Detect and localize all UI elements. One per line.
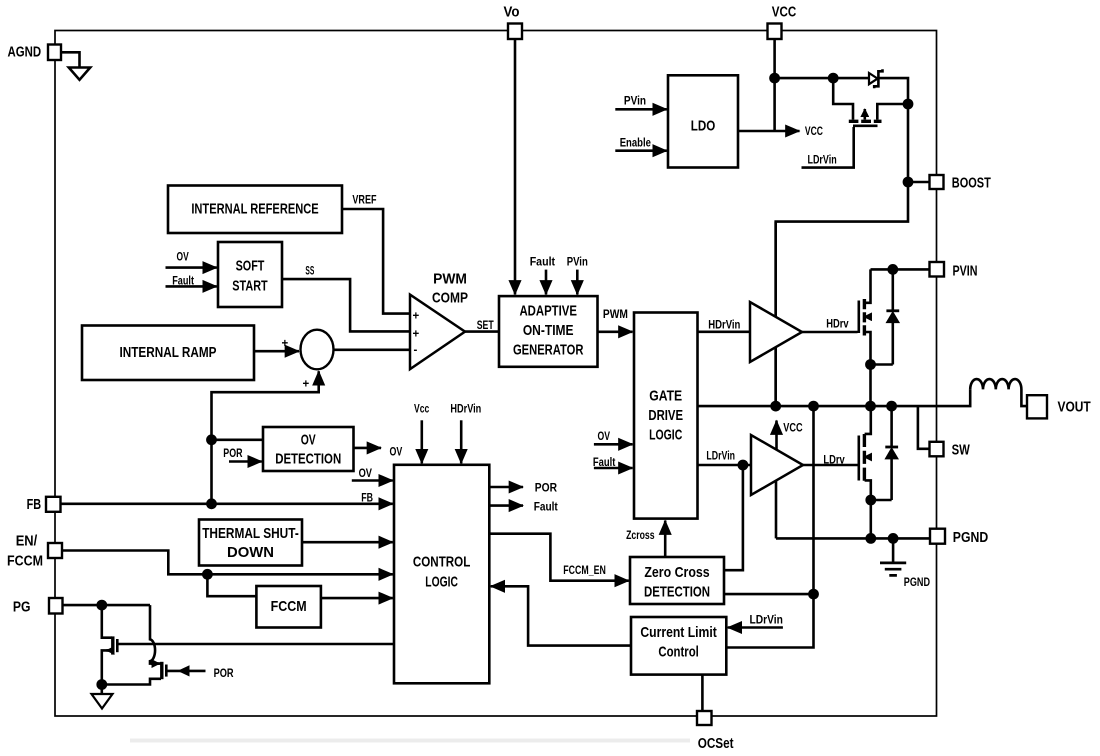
svg-text:DRIVE: DRIVE [648,407,683,424]
wire SS to comparator middle input [282,279,409,331]
transistor M1 gate bar [116,639,119,652]
junction SW rail at body diode [886,401,897,412]
junction SW rail at zcd column [808,401,819,412]
wire PVin arrow into AOT top [576,270,579,295]
block INTERNAL RAMP [82,326,254,381]
wire Enable arrow into LDO [615,149,667,152]
junction VCC rail at bootstrap fet [828,73,839,84]
pin VCC [768,24,782,40]
transistor M1 channel [111,636,114,654]
wire PWM from AOT to gate drive logic [598,330,633,333]
wire M1 source to ground [102,650,112,684]
wire PGND rail [776,537,930,540]
svg-text:GATE: GATE [649,388,682,405]
block FCCM [256,586,321,628]
svg-text:LOGIC: LOGIC [425,574,458,591]
wire current limit control to OCSet pin [701,675,704,711]
wire Vo to adaptive on-time generator [514,39,517,295]
svg-text:Enable: Enable [620,138,651,150]
diode D3 low side body diode [890,406,893,446]
svg-text:OV: OV [390,447,403,459]
svg-text:FB: FB [27,497,41,513]
svg-text:+: + [413,311,420,323]
pin BOOST [930,175,944,189]
wire PVin arrow into LDO [615,108,667,111]
diode D1 bootstrap schottky [869,73,878,84]
svg-text:Vo: Vo [504,5,520,21]
junction VCC rail at pin column [769,73,780,84]
pin EN/FCCM [48,543,62,558]
junction boost column at BOOST pin [903,177,914,188]
transistor M2 body arrow [151,662,160,665]
svg-text:VREF: VREF [352,195,376,207]
svg-text:EN/: EN/ [16,533,38,549]
wire VCC pin down to LDO output [773,39,776,131]
junction EN line at FCCM branch [202,569,213,580]
wire BOOST supply through high side driver to SW rail (hidden behind triangle) [774,222,777,407]
svg-text:OV: OV [301,432,316,449]
wire HDrv driver output to high side fet gate [802,331,858,334]
svg-text:LDrVin: LDrVin [750,614,783,626]
svg-text:PG: PG [13,600,31,616]
wire Q3 gate to LDrVin [802,127,854,168]
svg-text:FCCM: FCCM [7,554,43,570]
ground PG circuit [92,694,113,709]
junction zcd column [808,589,819,600]
svg-text:Fault: Fault [534,502,558,514]
svg-text:SOFT: SOFT [236,258,265,275]
pin PVIN [930,262,945,277]
svg-text:COMP: COMP [432,290,468,307]
wire Fault arrow into AOT top [545,270,548,295]
transistor Q2 body arrow [864,456,871,459]
block CONTROL LOGIC [394,465,489,684]
junction SW rail at boost column [770,401,781,412]
svg-text:HDrv: HDrv [826,319,849,331]
wire Q1 drain to PVIN line [865,269,871,302]
diode D2 high side body diode [891,269,894,309]
svg-text:SS: SS [305,266,314,278]
svg-text:ADAPTIVE: ADAPTIVE [519,302,577,319]
wire LDO output VCC arrow [738,130,800,133]
wire to PGND ground symbol [892,538,895,562]
svg-text:LDrVin: LDrVin [808,155,837,167]
svg-text:GENERATOR: GENERATOR [513,342,584,359]
svg-text:CONTROL: CONTROL [413,554,470,571]
IC boundary box [55,31,937,717]
transistor Q3 body arrow [863,109,866,120]
arrowhead POR into M2 gate [178,665,190,676]
svg-text:AGND: AGND [8,45,42,61]
wire Q2 source to PGND rail [869,500,872,538]
op-amp PWM COMP [410,295,465,370]
wire EN branch to FCCM block [207,574,256,596]
junction PGND rail at ground symbol [888,533,899,544]
svg-text:SET: SET [477,320,494,332]
transistor Q1 body arrow [864,315,871,318]
transistor Q2 low side fet gate bar [857,436,860,481]
wire thermal shutdown output to control logic [302,541,393,544]
svg-text:PGND: PGND [904,577,930,589]
wire AGND to ground [61,52,80,67]
transistor Q1 high side fet gate bar [857,301,860,334]
svg-text:DETECTION: DETECTION [644,584,710,601]
svg-text:+: + [303,379,310,391]
wire POR output arrow [489,486,523,489]
svg-text:POR: POR [214,668,235,680]
pin Vo [508,24,522,40]
wire SW rail from gate drive logic to inductor [698,389,971,406]
svg-text:START: START [232,277,267,294]
svg-text:THERMAL SHUT-: THERMAL SHUT- [202,525,299,542]
transistor Q3 bootstrap switch channel [849,120,882,123]
wire bootstrap fet left terminal [833,78,853,120]
wire LDrv driver output to low side fet gate [803,464,858,467]
summing junction circle [301,330,334,370]
wire FB column to OV detection [212,438,264,441]
wire HDrVin to high side driver [698,330,751,333]
junction FB line at column [206,498,217,509]
junction PVIN line and body diode [887,264,898,275]
junction FB column at OV detection branch [206,434,217,445]
block INTERNAL REFERENCE [168,186,342,234]
svg-text:VCC: VCC [805,126,823,138]
svg-text:Vcc: Vcc [414,404,430,416]
svg-text:-: - [414,345,418,357]
buffer U3 low side driver LDrv [751,435,803,495]
svg-text:OCSet: OCSet [698,736,734,752]
ground PGND [880,563,906,576]
wire LDrVin to low side driver [698,464,752,467]
node VOUT terminal square [1027,395,1047,418]
svg-text:PWM: PWM [603,309,628,321]
svg-text:FCCM: FCCM [271,598,307,615]
svg-text:FCCM_EN: FCCM_EN [563,565,606,577]
block SOFT START [218,242,282,307]
wire SET comparator to AOT [465,330,499,333]
transistor M2 gate bar [165,665,168,677]
svg-text:DOWN: DOWN [227,544,274,561]
wire Zcross arrow from zero cross detection to gate drive logic [664,521,667,557]
buffer U2 high side driver HDrv [750,302,802,362]
svg-text:HDrVin: HDrVin [708,320,740,332]
svg-text:OV: OV [177,252,189,264]
pin OCSet [697,711,712,725]
junction PGND rail at Q2 source [865,533,876,544]
block Current Limit Control [631,617,726,675]
wire BOOST stub [908,181,930,184]
pin PG [49,598,63,614]
wire M2 source to ground rail [102,679,161,685]
wire Fault output arrow [489,504,523,507]
wire OV arrow into gate drive logic [594,443,633,446]
svg-text:Current Limit: Current Limit [640,624,716,641]
svg-text:Control: Control [658,644,698,661]
wire OV detection output arrow [354,447,382,450]
wire Fault arrow into soft start [166,285,217,288]
block Zero Cross DETECTION [630,557,724,604]
faint ghost mark bottom [130,739,690,743]
wire HDrVin arrow into control logic top [460,420,463,463]
pin PGND [930,529,945,544]
wire VCC rail to bootstrap diode [775,77,869,80]
svg-text:PVIN: PVIN [953,264,978,280]
svg-text:OV: OV [359,468,373,480]
wire M1 gate line to control logic [118,643,394,646]
junction Q2 source and diode [865,495,876,506]
wire Q1 source down [865,332,871,365]
pin FB [46,497,61,512]
junction PG ground node [96,679,107,690]
wire M2 gate line [167,670,206,673]
wire VREF to comparator plus input [342,209,409,314]
wire PG branch over gate line to M2 drain (hop) [150,605,161,664]
svg-text:DETECTION: DETECTION [275,451,341,468]
pin SW [930,442,944,457]
svg-text:FB: FB [361,493,373,505]
wire Fault arrow into gate drive logic [594,467,633,470]
wire PG node down to M1 drain [102,605,112,638]
svg-text:LDrVin: LDrVin [706,451,735,463]
wire bootstrap fet right terminal [877,104,908,120]
svg-text:SW: SW [952,443,970,459]
block THERMAL SHUT-DOWN [199,520,302,566]
svg-text:Fault: Fault [530,257,556,269]
wire LDrVin node to zero cross detection [725,465,743,570]
wire summing junction to comparator minus input [334,348,410,351]
wire ground stub [101,685,104,695]
transistor M1 body arrow [107,649,113,652]
junction boost column top [903,99,914,110]
svg-text:Zero Cross: Zero Cross [644,564,709,581]
wire current limit control to control logic return arrow [491,586,631,645]
transistor Q1 channel [863,299,866,336]
svg-text:BOOST: BOOST [952,176,991,192]
block GATE DRIVE LOGIC [634,313,698,519]
junction Q1 source and diode [865,359,876,370]
wire SW pin branch [918,406,930,449]
transistor Q2 channel [863,434,866,481]
wire FCCM output to control logic [321,597,393,600]
inductor L1 [970,379,1027,406]
svg-text:OV: OV [598,431,611,443]
wire zcd column from SW rail to current limit control [726,406,813,647]
svg-text:HDrVin: HDrVin [450,404,481,416]
svg-text:LOGIC: LOGIC [649,427,682,444]
wire Vcc arrow into control logic top [420,420,423,463]
svg-text:POR: POR [223,448,243,460]
svg-text:Zcross: Zcross [626,530,655,542]
wire FCCM_EN control logic to zero cross detection [489,534,629,581]
block LDO [668,75,738,167]
svg-text:+: + [282,338,289,350]
svg-text:ON-TIME: ON-TIME [523,322,574,339]
wire ramp to summing junction [254,350,299,353]
wire FB column to summing junction bottom [212,371,319,504]
wire FB line to control logic [61,502,393,505]
transistor Q3 gate bar [853,125,878,128]
wire LDrVin arrow into current limit control [728,626,783,629]
wire bootstrap diode to corner [776,78,908,406]
svg-text:VCC: VCC [772,5,797,21]
wire PG line [63,604,151,607]
block OV DETECTION [263,427,354,471]
wire low side driver ground return to PGND rail [775,480,778,538]
svg-text:POR: POR [535,483,558,495]
junction LDrVin node [738,460,749,471]
wire PVIN pin line [871,268,930,271]
wire VCC arrow above low side driver [775,421,778,451]
ground AGND [69,68,90,80]
svg-text:PVin: PVin [624,96,646,108]
pin AGND [48,45,61,61]
wire OV arrow into control logic [352,479,393,482]
junction SW rail at Q1 source [865,401,876,412]
wire zero cross detection lower output to column [724,593,814,596]
svg-text:PVin: PVin [567,257,588,269]
transistor M2 channel [160,662,163,679]
wire POR arrow into OV detection [229,460,262,463]
wire Q2 source down [865,480,871,500]
svg-text:PWM: PWM [433,271,467,288]
junction PG node [96,600,107,611]
svg-text:+: + [413,329,420,341]
svg-text:PGND: PGND [953,530,988,546]
block ADAPTIVE ON-TIME GENERATOR [499,296,598,367]
svg-text:INTERNAL REFERENCE: INTERNAL REFERENCE [191,201,318,218]
svg-text:VCC: VCC [783,423,802,435]
wire EN/FCCM to control logic [62,551,393,575]
svg-text:INTERNAL RAMP: INTERNAL RAMP [120,344,217,361]
wire Q2 drain to SW rail [865,406,871,434]
wire Q1 source to SW rail [869,365,872,407]
svg-text:VOUT: VOUT [1058,400,1091,416]
wire OV arrow into soft start [166,266,217,269]
svg-text:LDO: LDO [691,118,716,135]
